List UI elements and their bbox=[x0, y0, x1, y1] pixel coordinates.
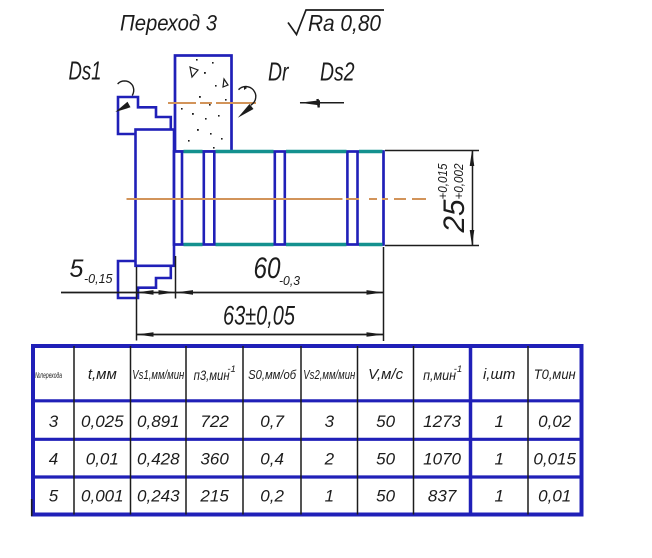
shaft groove lines bbox=[182, 152, 358, 245]
svg-text:0,001: 0,001 bbox=[81, 487, 124, 506]
svg-text:1273: 1273 bbox=[423, 412, 461, 431]
svg-text:0,02: 0,02 bbox=[538, 412, 572, 431]
svg-text:0,015: 0,015 bbox=[533, 450, 576, 469]
svg-text:5: 5 bbox=[49, 487, 59, 506]
svg-text:п,мин: п,мин bbox=[423, 368, 457, 383]
svg-text:63±0,05: 63±0,05 bbox=[223, 301, 296, 331]
chuck jaw bottom bbox=[118, 261, 171, 298]
tick mark below table left bbox=[31, 499, 33, 516]
svg-text:S0,мм/об: S0,мм/об bbox=[248, 367, 297, 382]
feed direction arrow Ds2 bbox=[300, 99, 345, 108]
svg-text:0,243: 0,243 bbox=[137, 487, 180, 506]
wheel rotation arrow Dr bbox=[238, 87, 256, 118]
svg-text:215: 215 bbox=[199, 487, 229, 506]
svg-text:Ds2: Ds2 bbox=[320, 57, 355, 87]
dimension 63±0,05 bbox=[137, 301, 384, 337]
svg-text:50: 50 bbox=[376, 412, 395, 431]
dimension 5 -0,15 text bbox=[70, 255, 113, 286]
svg-text:50: 50 bbox=[376, 487, 395, 506]
svg-text:i,шт: i,шт bbox=[483, 366, 515, 383]
svg-text:Ds1: Ds1 bbox=[69, 56, 102, 86]
table data row 3 bbox=[49, 487, 571, 506]
svg-text:№перехода: №перехода bbox=[35, 370, 62, 380]
svg-text:-0,3: -0,3 bbox=[279, 273, 301, 288]
workpiece flange bbox=[136, 130, 175, 266]
svg-text:60: 60 bbox=[254, 252, 281, 285]
title: Переход 3 bbox=[120, 11, 218, 36]
svg-text:3: 3 bbox=[325, 412, 335, 431]
ground surface (teal) bottom segments bbox=[184, 243, 383, 246]
workpiece rotation arrow Ds1 bbox=[115, 81, 133, 112]
svg-text:0,025: 0,025 bbox=[81, 412, 124, 431]
svg-text:1: 1 bbox=[494, 450, 503, 469]
svg-text:5: 5 bbox=[70, 255, 84, 283]
svg-text:+0,002: +0,002 bbox=[451, 163, 466, 200]
svg-text:Переход 3: Переход 3 bbox=[120, 11, 218, 36]
extension line at x=175.3 bbox=[175, 256, 177, 299]
wheel centerline bbox=[168, 102, 256, 104]
svg-text:1: 1 bbox=[494, 487, 503, 506]
svg-text:0,4: 0,4 bbox=[260, 450, 284, 469]
svg-text:4: 4 bbox=[49, 450, 58, 469]
svg-text:25: 25 bbox=[438, 199, 471, 233]
svg-text:2: 2 bbox=[324, 450, 335, 469]
parameter table frame bbox=[33, 346, 582, 515]
roughness symbol Ra 0,80 bbox=[288, 10, 384, 36]
svg-text:+0,015: +0,015 bbox=[435, 163, 450, 200]
svg-text:1070: 1070 bbox=[423, 450, 461, 469]
svg-text:1: 1 bbox=[494, 412, 503, 431]
svg-text:360: 360 bbox=[200, 450, 229, 469]
svg-text:0,01: 0,01 bbox=[86, 450, 119, 469]
svg-text:0,7: 0,7 bbox=[260, 412, 284, 431]
svg-text:Т0,мин: Т0,мин bbox=[534, 366, 576, 382]
label Dr bbox=[268, 57, 290, 87]
grinding wheel bbox=[175, 56, 232, 152]
ground surface (teal) top segments bbox=[184, 150, 383, 153]
shaft body bbox=[174, 152, 384, 245]
table column separators (black) bbox=[74, 346, 528, 515]
chuck jaw top bbox=[118, 97, 171, 134]
label Ds1 bbox=[69, 56, 102, 86]
svg-text:-1: -1 bbox=[454, 364, 462, 375]
svg-text:V,м/с: V,м/с bbox=[368, 366, 404, 383]
svg-text:Dr: Dr bbox=[268, 57, 290, 87]
dimension 60 -0,3 text bbox=[254, 252, 301, 288]
svg-text:837: 837 bbox=[428, 487, 457, 506]
svg-text:0,428: 0,428 bbox=[137, 450, 180, 469]
svg-text:п3,мин: п3,мин bbox=[194, 368, 230, 383]
svg-text:0,01: 0,01 bbox=[538, 487, 571, 506]
svg-text:-0,15: -0,15 bbox=[84, 272, 113, 286]
dimension line y=292.4 (5 and 60 dims) bbox=[61, 290, 384, 295]
svg-text:t,мм: t,мм bbox=[88, 366, 117, 383]
extension line at x=136.6 bbox=[136, 267, 138, 341]
shaft centerline bbox=[127, 198, 427, 200]
svg-text:722: 722 bbox=[200, 412, 229, 431]
table header row bbox=[35, 364, 576, 383]
svg-text:3: 3 bbox=[49, 412, 59, 431]
svg-text:Ra 0,80: Ra 0,80 bbox=[308, 10, 381, 36]
svg-text:0,2: 0,2 bbox=[260, 487, 284, 506]
extension line at x=383.5 bbox=[383, 247, 385, 341]
svg-text:0,891: 0,891 bbox=[137, 412, 180, 431]
svg-text:1: 1 bbox=[325, 487, 334, 506]
svg-text:Vs1,мм/мин: Vs1,мм/мин bbox=[132, 368, 184, 382]
svg-text:50: 50 bbox=[376, 450, 395, 469]
svg-text:-1: -1 bbox=[227, 364, 235, 375]
wheel abrasive speckles bbox=[181, 59, 247, 149]
svg-text:Vs2,мм/мин: Vs2,мм/мин bbox=[303, 368, 355, 382]
table data row 2 bbox=[49, 450, 577, 469]
table data row 1 bbox=[49, 412, 572, 431]
dimension 25 +0,015 +0,002 bbox=[385, 150, 479, 245]
label Ds2 bbox=[320, 57, 355, 87]
